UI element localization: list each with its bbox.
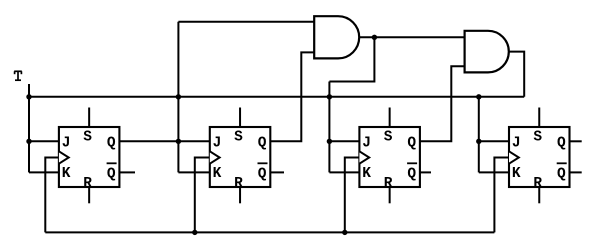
wire: U4 K input <box>479 171 509 173</box>
svg-text:R: R <box>83 176 92 192</box>
wire: U2 J input <box>178 140 209 142</box>
input label T <box>14 71 22 80</box>
JK flip-flop U1 <box>59 108 120 204</box>
wire: Q2 output to AND gate G1 bottom input <box>270 52 314 141</box>
svg-text:Q: Q <box>557 166 566 182</box>
wire: G1 output branch down to U3 <box>329 37 374 81</box>
wire: U2/U3/U4 J-K feed verticals <box>177 22 179 173</box>
wire: U1 K input <box>29 171 59 173</box>
wire: U3 Q-bar output stub <box>420 171 431 173</box>
U1 reset stub <box>88 187 90 203</box>
U2 reset stub <box>239 187 241 203</box>
wire: U4 Q output stub <box>570 140 582 142</box>
wire: U2 K input <box>178 171 209 173</box>
svg-text:K: K <box>512 166 521 182</box>
U3 set stub <box>389 108 391 128</box>
junction: G1 output node <box>372 35 377 40</box>
U3 clock chevron <box>359 151 369 163</box>
U4 set stub <box>538 108 540 128</box>
U4 clock chevron <box>509 151 519 163</box>
junction: T on bus <box>26 94 31 99</box>
junction: U1 J node <box>26 139 31 144</box>
U3 reset stub <box>389 187 391 203</box>
svg-text:Q: Q <box>407 135 416 151</box>
wire: G2 output down to bus <box>509 52 524 97</box>
junction: G2 out on bus <box>476 94 481 99</box>
wire: U2 clock feed <box>195 158 210 233</box>
svg-text:J: J <box>213 135 222 151</box>
svg-text:Q: Q <box>107 166 116 182</box>
U1 body <box>59 127 120 187</box>
svg-text:S: S <box>384 129 393 145</box>
U2 body <box>210 127 270 187</box>
JK flip-flop U2 <box>210 108 270 204</box>
svg-text:Q: Q <box>407 166 416 182</box>
U4 reset stub <box>538 187 540 203</box>
svg-text:Q: Q <box>258 135 267 151</box>
U3 body <box>359 127 420 187</box>
svg-text:S: S <box>533 129 542 145</box>
junction: U2 clock on bottom bus <box>192 230 197 235</box>
svg-text:J: J <box>62 135 71 151</box>
junction: U3 J node <box>327 139 332 144</box>
wire: T input vertical <box>28 84 30 172</box>
svg-text:K: K <box>213 166 222 182</box>
svg-text:K: K <box>62 166 71 182</box>
svg-text:J: J <box>362 135 371 151</box>
wire: U1 J input <box>29 140 59 142</box>
svg-text:S: S <box>234 129 243 145</box>
U1 clock chevron <box>59 151 69 163</box>
wire: Q1 up to AND gate G1 top input <box>178 21 314 23</box>
wire: Q1 output to node <box>119 140 178 142</box>
U2 set stub <box>239 108 241 128</box>
svg-text:Q: Q <box>258 166 267 182</box>
wire: U1 Q-bar output stub <box>119 171 135 173</box>
svg-text:Q: Q <box>557 135 566 151</box>
junction: Q1 net on bus <box>176 94 181 99</box>
wire: U4 Q-bar output stub <box>570 171 582 173</box>
AND gate G2 <box>465 31 509 73</box>
U1 set stub <box>88 108 90 128</box>
JK flip-flop U3 <box>359 108 420 204</box>
wire: U3 clock feed <box>345 158 360 233</box>
wire: Q3 output to AND gate G2 bottom input <box>420 66 465 141</box>
wire: U2 Q-bar output stub <box>270 171 284 173</box>
svg-text:S: S <box>83 129 92 145</box>
junction: U2 J node <box>176 139 181 144</box>
svg-text:Q: Q <box>107 135 116 151</box>
U2 clock chevron <box>210 151 220 163</box>
junction: U3 clock on bottom bus <box>342 230 347 235</box>
wire: U3 J input <box>329 140 359 142</box>
svg-text:R: R <box>384 176 393 192</box>
wire: U4 clock feed <box>494 158 509 233</box>
wire: U1 clock feed <box>45 158 59 233</box>
svg-text:J: J <box>512 135 521 151</box>
svg-text:R: R <box>533 176 542 192</box>
wire: main horizontal bus <box>29 96 524 98</box>
svg-text:K: K <box>362 166 371 182</box>
junction: U4 J node <box>476 139 481 144</box>
svg-text:R: R <box>234 176 243 192</box>
AND gate G1 <box>314 16 359 58</box>
wire: U3 K input <box>329 171 359 173</box>
wire: bottom clock bus <box>45 231 494 233</box>
junction: G1 out on bus <box>327 94 332 99</box>
JK flip-flop U4 <box>509 108 570 204</box>
U4 body <box>509 127 570 187</box>
wire: U4 J input <box>479 140 509 142</box>
wire: G1 output to G2 top input <box>359 36 464 38</box>
